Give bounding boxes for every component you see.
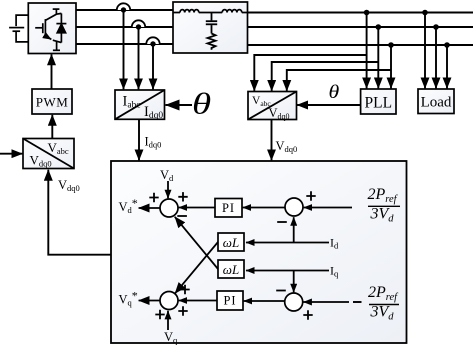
wire input arrow into dq0/abc block xyxy=(0,153,22,155)
wire feedback Vdq0* from control box to dq0/abc block xyxy=(48,170,111,255)
wire S3 output Vq* xyxy=(139,300,160,302)
svg-text:Vdq0: Vdq0 xyxy=(276,139,298,154)
dq0/abc transform block (modulation) V_dq0/V_abc xyxy=(23,139,74,169)
svg-text:Idq0: Idq0 xyxy=(145,134,162,149)
wire S1 output Vd* xyxy=(139,207,160,209)
wire Vd into summer S1 xyxy=(167,181,169,198)
sign - (S1 bottom-right) xyxy=(177,215,187,217)
wire tap b to Vabc block xyxy=(272,62,379,91)
filter wire xyxy=(173,12,248,14)
wire phase c xyxy=(76,43,173,45)
fraction 2Pref/3Vd xyxy=(368,186,401,224)
wire b to PLL xyxy=(377,27,379,88)
transistor Q1 (IGBT) xyxy=(35,9,61,50)
wire dq0/abc block to PWM xyxy=(51,115,53,139)
svg-text:Vdq0: Vdq0 xyxy=(58,178,80,193)
wire a to PLL xyxy=(366,13,368,89)
bus wire phase c (right) xyxy=(248,44,474,46)
wire PLL theta to V block xyxy=(297,104,361,106)
sign + (S1 top-left) xyxy=(149,193,158,202)
junction dot c-Load xyxy=(444,42,450,48)
wire CT2 to Iabc block xyxy=(138,27,140,89)
abc/dq0 transform block (voltages) V_abc/V_dq0 xyxy=(248,92,297,121)
sign + (S3 right-bottom) xyxy=(178,306,187,315)
sign - (S2 bottom-left) xyxy=(277,221,287,223)
sign - (S4 top-left) xyxy=(276,290,286,292)
wire S2 to PI1 xyxy=(243,207,285,209)
wire S4 to PI2 xyxy=(244,300,285,302)
wire c to Load xyxy=(446,45,448,88)
wire phase b xyxy=(76,26,173,28)
summer S2 xyxy=(285,198,303,216)
omega-L block (d axis) xyxy=(218,233,244,251)
junction dot b-PLL xyxy=(376,24,382,30)
svg-text:ωL: ωL xyxy=(223,235,239,250)
wire phase a (inverter to filter) xyxy=(76,9,173,11)
control box xyxy=(111,161,407,343)
junction dot b-Load xyxy=(433,24,439,30)
bus wire phase a (right) xyxy=(248,12,474,14)
fraction 2Pref/3Vd (q) xyxy=(368,284,399,322)
wire Vq into S3 xyxy=(167,311,169,330)
wire c to PLL xyxy=(390,45,392,88)
wire omega-L1 cross to S3 xyxy=(175,242,218,293)
summer S3 xyxy=(160,292,178,310)
sign + (S2 top-right) xyxy=(306,191,315,200)
wire Iq feedback down to S4 xyxy=(293,271,295,293)
svg-text:ωL: ωL xyxy=(223,262,239,277)
wire PWM to inverter xyxy=(51,54,53,89)
PWM block xyxy=(32,89,72,114)
junction dot a-Load xyxy=(422,10,428,16)
current sensor CT3 xyxy=(146,37,159,46)
wire Idq0 to control box xyxy=(138,119,140,160)
svg-text:PI: PI xyxy=(222,201,235,215)
svg-text:PWM: PWM xyxy=(36,95,69,110)
current sensor CT1 xyxy=(117,3,130,12)
wire CT3 to Iabc block xyxy=(152,44,154,89)
resistor R1 xyxy=(208,34,216,50)
wire Iq to omega-L2 xyxy=(246,270,329,272)
svg-text:θ: θ xyxy=(329,82,340,102)
wire CT1 to Iabc block xyxy=(123,10,125,89)
PI block (d axis) xyxy=(215,199,242,218)
Load block xyxy=(418,89,454,114)
wire b to Load xyxy=(435,27,437,88)
wire Id feedback up to S2 xyxy=(293,217,295,242)
sign - (ref q) xyxy=(353,301,362,303)
sign + (S3 bottom-left) xyxy=(155,310,164,319)
sign + (S4 bottom-right) xyxy=(303,310,312,319)
capacitor C1 xyxy=(206,13,217,34)
sign + (S3 top-right) xyxy=(180,285,189,294)
wire Id to omega-L1 xyxy=(246,242,329,244)
junction dot a-PLL xyxy=(364,10,370,16)
inverter U1 box xyxy=(28,3,76,54)
wire a to Load xyxy=(424,13,426,89)
dc source (battery) xyxy=(9,15,28,42)
abc/dq0 transform block (currents) I_abc/I_dq0 xyxy=(115,90,165,121)
theta input arrow to I block xyxy=(166,104,193,106)
wire tap c to Vabc block xyxy=(287,70,391,91)
summer S4 xyxy=(285,293,303,311)
PLL block xyxy=(361,89,396,114)
wire Vdq0 to control box xyxy=(271,120,273,161)
diode D1 (antiparallel) xyxy=(56,13,66,42)
sign + (S1 top-right) xyxy=(178,192,187,201)
svg-text:θ: θ xyxy=(192,87,211,121)
inductor L1 xyxy=(180,10,199,13)
wire PI2 to S3 xyxy=(179,300,217,302)
wire tap a to Vabc block xyxy=(254,55,366,91)
filter box xyxy=(173,2,248,53)
wire ref to S4 xyxy=(303,301,349,303)
current sensor CT2 xyxy=(132,20,145,29)
svg-text:PI: PI xyxy=(223,294,236,308)
inductor L2 xyxy=(222,10,242,13)
summer S1 xyxy=(160,199,178,217)
bus wire phase b (right) xyxy=(248,26,474,28)
wire PI1 to S1 xyxy=(179,207,215,209)
wire omega-L2 cross to S1 xyxy=(175,217,218,269)
junction dot c-PLL xyxy=(388,42,394,48)
PI block (q axis) xyxy=(217,291,243,310)
omega-L block (q axis) xyxy=(218,260,244,278)
svg-text:PLL: PLL xyxy=(365,94,393,111)
wire ref to S2 xyxy=(304,207,352,209)
svg-text:Load: Load xyxy=(421,95,452,111)
